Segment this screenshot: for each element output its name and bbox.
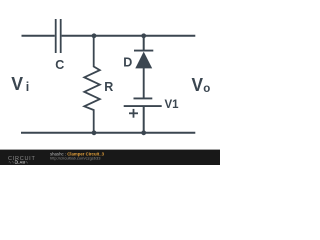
battery V1 short plate (top) xyxy=(134,97,153,99)
capacitor C1 right plate xyxy=(60,19,62,53)
node junction top at diode xyxy=(141,33,146,38)
svg-text:R: R xyxy=(104,80,113,94)
resistor R (zigzag with leads) xyxy=(84,36,100,133)
svg-text:C: C xyxy=(55,58,64,72)
battery V1 plus sign xyxy=(129,112,138,114)
svg-text:o: o xyxy=(203,83,210,95)
svg-text:V: V xyxy=(192,75,204,95)
svg-text:V1: V1 xyxy=(165,99,180,111)
wire top-right (capacitor to output) xyxy=(62,35,196,37)
wire battery to bottom rail xyxy=(143,106,145,133)
circuitlab logo xyxy=(8,151,105,164)
svg-text:V: V xyxy=(11,74,23,94)
wire diode to battery xyxy=(143,68,145,99)
svg-text:D: D xyxy=(123,55,132,69)
capacitor C1 left plate xyxy=(55,19,57,53)
wire bottom rail xyxy=(21,132,195,134)
watermark bar xyxy=(0,150,220,165)
wire top-left (input to capacitor) xyxy=(22,35,55,37)
node junction top at resistor xyxy=(92,33,97,38)
wire diode anode branch (top) xyxy=(143,36,145,50)
node junction bottom at battery xyxy=(141,130,146,135)
svg-text:http://circuitlab.com/czgsb33: http://circuitlab.com/czgsb33 xyxy=(50,155,101,160)
battery V1 long plate (bottom) xyxy=(124,105,162,107)
svg-text:i: i xyxy=(26,80,29,94)
diode D cathode bar xyxy=(134,50,153,52)
diode D triangle xyxy=(135,52,152,69)
svg-text:∿∿⎕LAB∿: ∿∿⎕LAB∿ xyxy=(8,159,28,164)
node junction bottom at resistor xyxy=(92,130,97,135)
